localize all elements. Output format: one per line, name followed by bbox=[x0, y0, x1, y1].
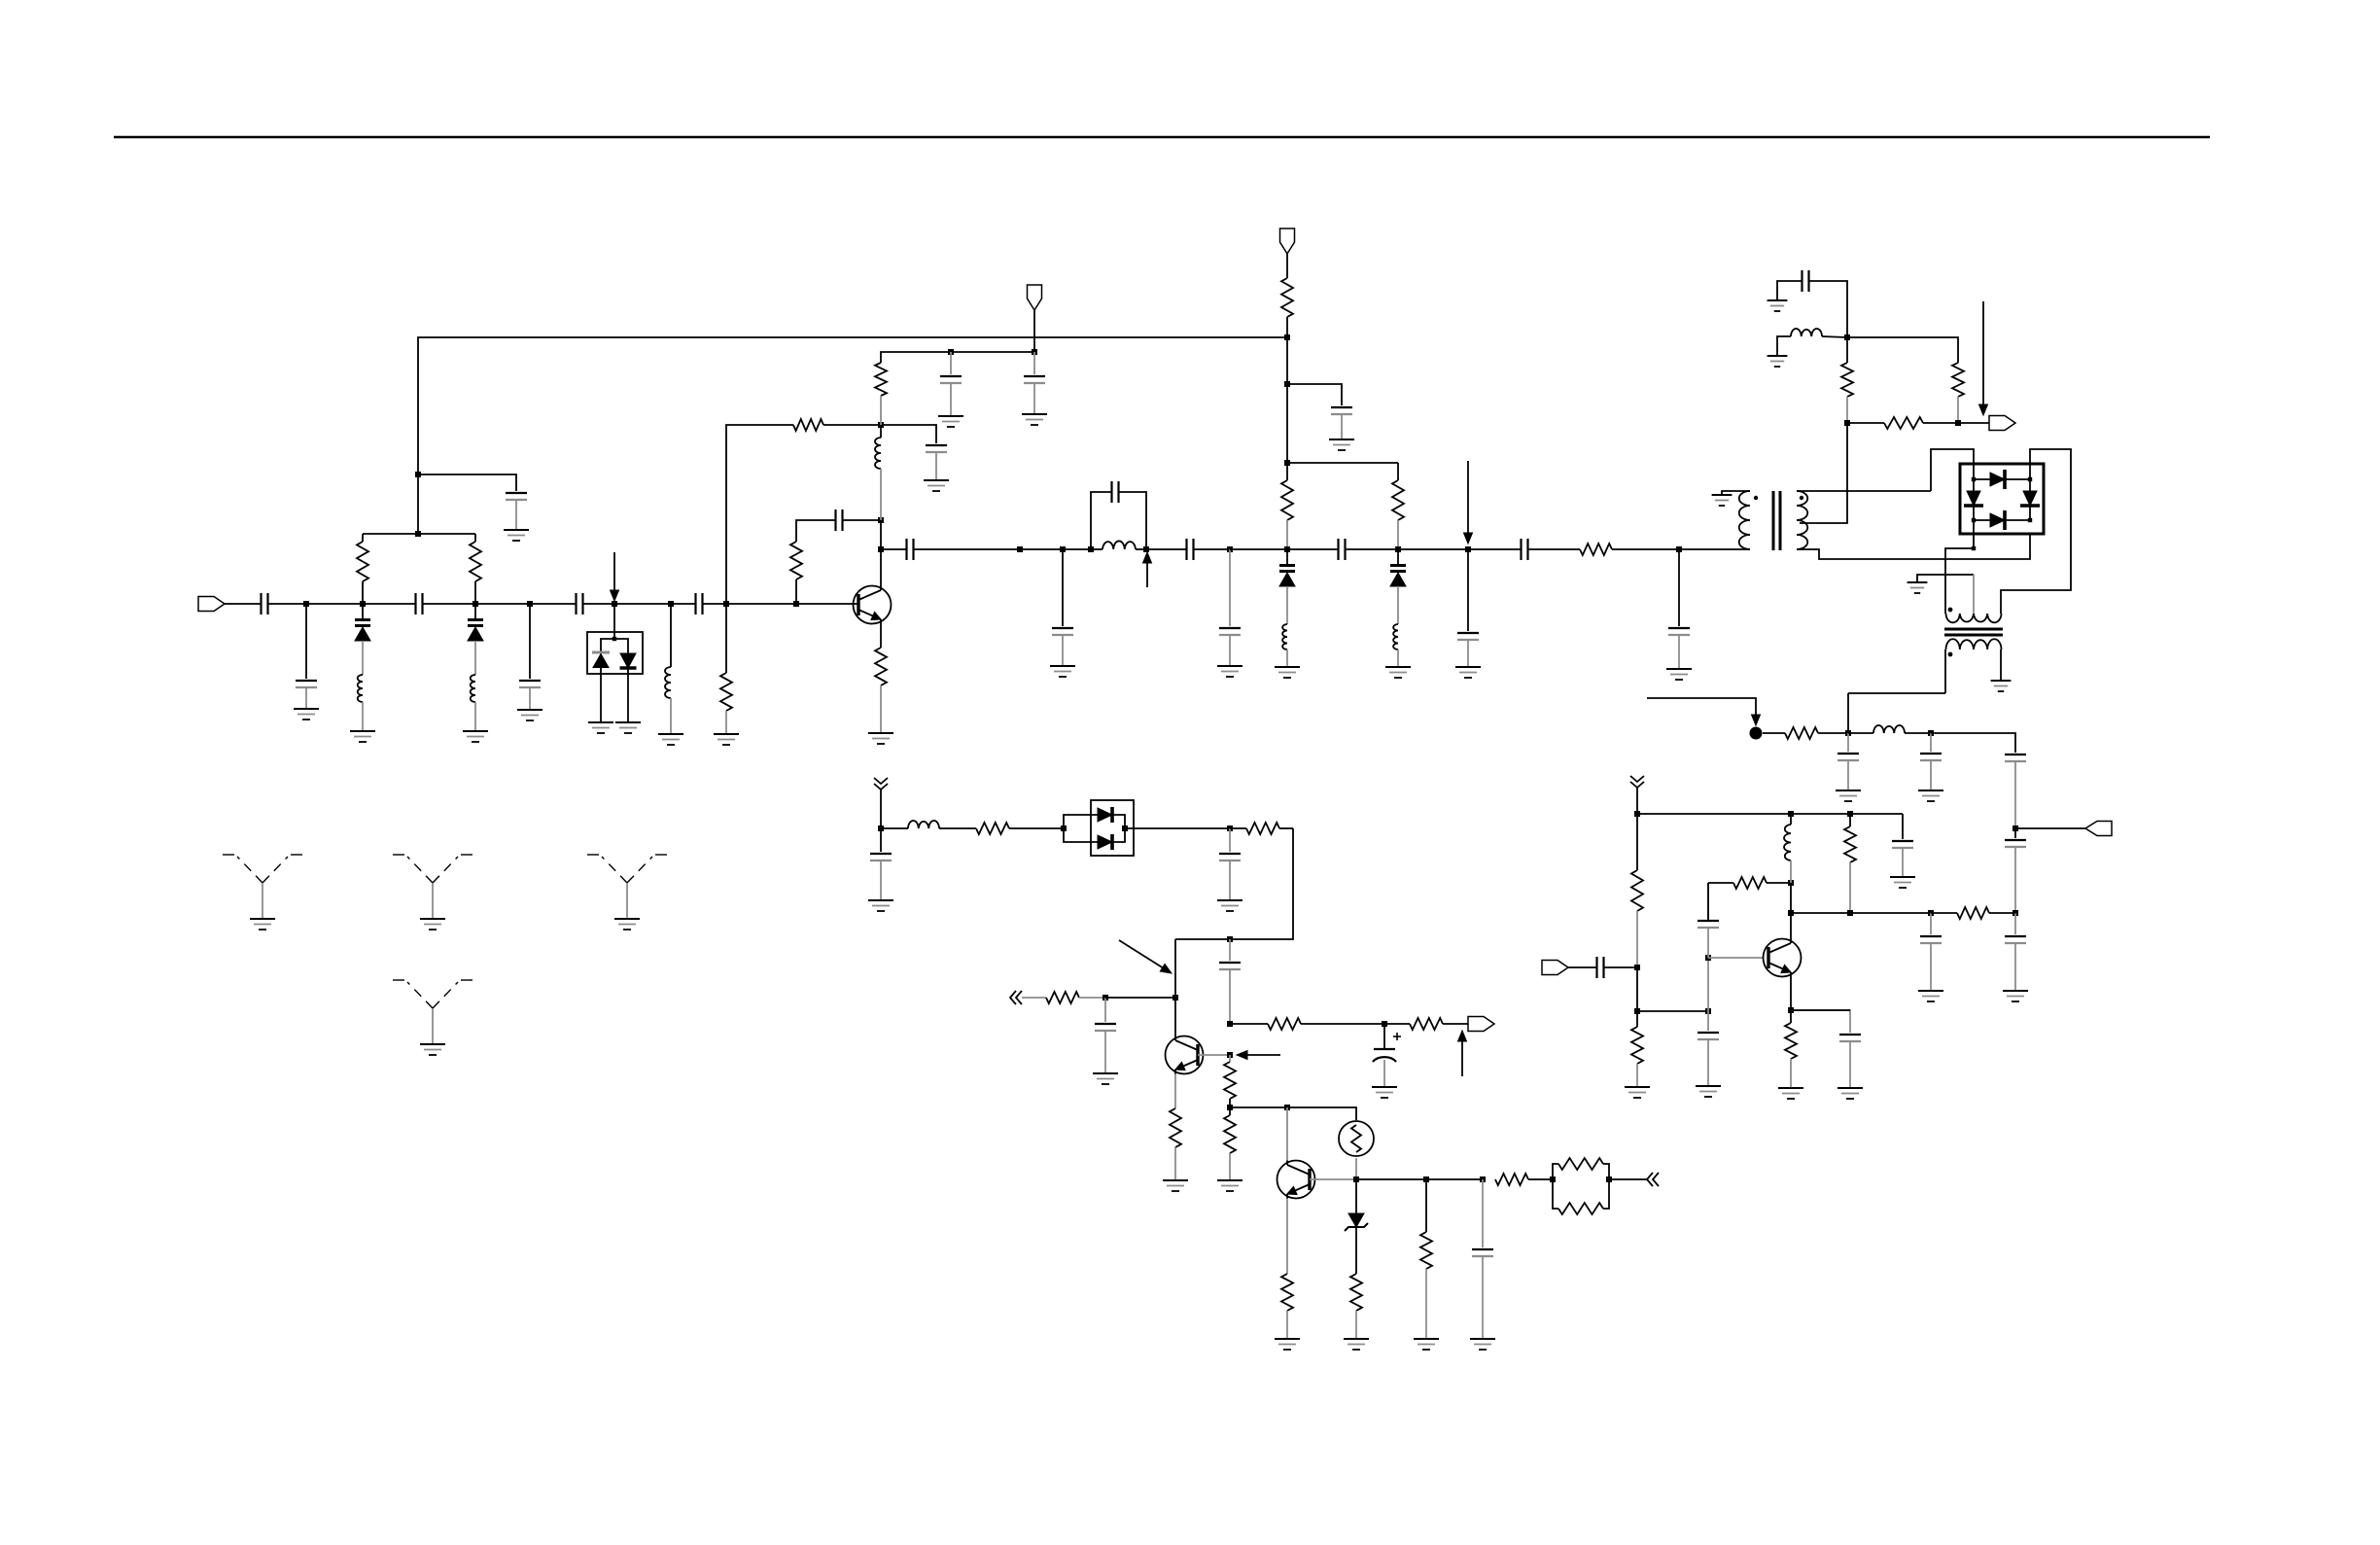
wire R7 to bus bbox=[1286, 317, 1288, 337]
core T2 bbox=[1944, 628, 2003, 631]
resistor R10 bbox=[1580, 544, 1612, 555]
wire C29 to col1 bbox=[1604, 966, 1637, 968]
wire VA shunt bbox=[880, 828, 882, 852]
wire QE to cap bbox=[1791, 1010, 1850, 1033]
resistor R2 bbox=[470, 542, 481, 581]
wire R29 lead bbox=[1286, 1311, 1288, 1339]
wire L3 lead bbox=[670, 698, 672, 734]
inductor L11 bbox=[908, 821, 939, 828]
wire C12 lead bbox=[1341, 414, 1343, 439]
wire Q2 collector bbox=[1174, 998, 1176, 1036]
ground C36 bbox=[1217, 899, 1242, 901]
diode CR2c bbox=[1967, 491, 1980, 506]
node VI bbox=[1227, 1105, 1233, 1110]
transformer T2 bottom winding bbox=[1946, 639, 2002, 650]
wire node A shunt lead bbox=[305, 604, 307, 679]
wire T2 bot leads bbox=[1944, 650, 1946, 693]
wire therm bottom bbox=[1355, 1158, 1357, 1179]
wire E into diode box bbox=[613, 604, 615, 639]
inductor L10 bbox=[1784, 825, 1791, 860]
wire CR1 left branch bbox=[601, 639, 614, 652]
wire R30 lead bbox=[1355, 1311, 1357, 1339]
connector RX pentagon bbox=[1542, 961, 1568, 975]
resistor R5 base bias bbox=[790, 542, 802, 579]
arrow to PWR OUT bbox=[1982, 301, 1984, 404]
capacitor C31 bbox=[1697, 1032, 1719, 1034]
wire R23 to VF bbox=[1079, 997, 1105, 999]
connector VCC pentagon bbox=[1028, 285, 1042, 310]
capacitor C25 bbox=[2005, 754, 2026, 755]
ground C27 bbox=[2003, 990, 2028, 992]
arrow anno down bbox=[1467, 461, 1469, 533]
capacitor C5 bbox=[519, 680, 541, 682]
ground C1 bbox=[504, 529, 529, 531]
capacitor C22 series bbox=[1801, 270, 1802, 292]
capacitor C7 series bbox=[694, 593, 696, 614]
wire C3 lead bbox=[305, 687, 307, 709]
capacitor C13 series bbox=[905, 539, 907, 560]
resistor R19 bbox=[1957, 907, 1989, 919]
wire JI shunt bbox=[1930, 913, 1932, 934]
wire QC down bbox=[1790, 883, 1792, 913]
wire L9 leads bbox=[1848, 732, 1873, 734]
resistor R14 bbox=[1785, 727, 1818, 739]
resistor R24 bbox=[1170, 1108, 1181, 1147]
wire T1 sec top bbox=[1797, 490, 1931, 492]
wire J8 to out bbox=[1958, 422, 1989, 424]
capacitor C27 bbox=[2005, 935, 2026, 937]
arrow anno left bbox=[1245, 1054, 1280, 1056]
ground R4 bbox=[868, 732, 893, 734]
wire L10 leads bbox=[1790, 814, 1792, 825]
wire Q3 collector bbox=[1790, 913, 1792, 939]
wire T1 sec bottom bbox=[1797, 534, 2030, 559]
node QM bbox=[1606, 1176, 1612, 1182]
wire J3 down bbox=[1286, 337, 1288, 384]
ground L2 bbox=[463, 730, 488, 732]
wire C26 lead bbox=[2014, 847, 2016, 913]
wire QM to stub bbox=[1609, 1178, 1647, 1180]
ground R20 bbox=[1778, 1087, 1803, 1089]
wire K to C13 bbox=[881, 548, 906, 550]
wire R31 lead bbox=[1425, 1269, 1427, 1339]
wire C14 lead bbox=[1062, 635, 1064, 666]
wire P2 to LC bbox=[1063, 548, 1091, 550]
wire C24 lead bbox=[1930, 760, 1932, 790]
ground C40 bbox=[1470, 1338, 1495, 1340]
resistor R12 bbox=[1841, 363, 1853, 397]
wire C38 lead bbox=[1104, 1031, 1106, 1073]
ground C23 bbox=[1836, 790, 1861, 791]
node B bbox=[360, 601, 366, 607]
wire R10 to P7 bbox=[1612, 548, 1679, 550]
ground C34 bbox=[1837, 1087, 1863, 1089]
wire R11 lead bbox=[1957, 397, 1959, 423]
wire C13 to P1 bbox=[914, 548, 1020, 550]
wire C33 lead bbox=[1930, 943, 1932, 991]
wire A to B bbox=[306, 603, 363, 605]
transformer T1 secondary bbox=[1797, 491, 1807, 549]
wire R12 leads bbox=[1846, 337, 1848, 363]
wire C22 right bbox=[1809, 281, 1847, 337]
ground L3 bbox=[658, 733, 683, 735]
node JH bbox=[1847, 910, 1853, 916]
node T2 top dot bbox=[1948, 608, 1953, 613]
node JE bbox=[1634, 1008, 1640, 1014]
node A bbox=[303, 601, 309, 607]
resistor R4 emitter bbox=[875, 648, 887, 685]
node QL bbox=[1550, 1176, 1556, 1182]
wire CR1a lead bbox=[600, 668, 602, 722]
capacitor C37 bbox=[1219, 962, 1241, 964]
wire VCC bus corner to junction bbox=[418, 337, 1287, 474]
wire Q4 collector bbox=[1286, 1107, 1288, 1161]
resistor R29 bbox=[1281, 1274, 1293, 1311]
ground C12 bbox=[1329, 439, 1354, 440]
node bus J3 bbox=[1284, 334, 1290, 340]
arrow anno diag bbox=[1119, 940, 1164, 968]
wire G shunt lead bbox=[725, 604, 727, 673]
wire feedback R6 run bbox=[823, 424, 881, 426]
inductor L5 bbox=[1102, 541, 1136, 549]
wire C31 lead bbox=[1707, 1039, 1709, 1086]
capacitor C39 electrolytic bbox=[1374, 1048, 1395, 1050]
wire QE corner bk bbox=[1791, 1009, 1850, 1011]
node J4 bbox=[1284, 381, 1290, 387]
capacitor C23 bbox=[1837, 753, 1859, 755]
wire bridge left rail bbox=[1973, 479, 1975, 520]
node QG bbox=[1227, 1052, 1233, 1058]
node J8 bbox=[1955, 420, 1961, 426]
wire 9V lead bbox=[1286, 254, 1288, 278]
wire R2 bottom lead bbox=[474, 581, 476, 603]
wire JF shunt bbox=[1707, 1011, 1709, 1031]
node VH bbox=[1382, 1021, 1387, 1027]
ground C10 bbox=[938, 415, 963, 417]
wire L2 lead bbox=[474, 702, 476, 731]
capacitor C8 series bbox=[834, 509, 836, 531]
wire J1 down to J2 bbox=[417, 474, 419, 534]
connector ANT bbox=[2085, 822, 2112, 836]
node BL corner bbox=[1972, 546, 1976, 550]
wire QJ to QK bbox=[1426, 1178, 1483, 1180]
inductor L6 bbox=[1282, 624, 1287, 650]
ground T2 bbox=[1991, 680, 2012, 682]
transistor Q1 bbox=[854, 586, 892, 624]
node H base of Q1 bbox=[793, 601, 799, 607]
resistor R28 bbox=[1224, 1115, 1236, 1153]
resistor R8 bbox=[1281, 480, 1293, 520]
node QC bbox=[1788, 880, 1794, 886]
wire D to C6 bbox=[530, 603, 576, 605]
wire JH to JI bbox=[1850, 912, 1931, 914]
wire C18 to P5 bbox=[1346, 548, 1398, 550]
capacitor C35 bbox=[870, 853, 892, 855]
resistor R6 bbox=[793, 419, 823, 431]
wire C35 lead bbox=[880, 860, 882, 900]
ground C21 bbox=[1666, 668, 1692, 670]
wire VD corner down bbox=[1175, 828, 1293, 939]
wire QD to JH bbox=[1791, 912, 1850, 914]
wire C5 lead bbox=[529, 687, 531, 710]
wire L11 leads bbox=[881, 827, 908, 829]
transformer T1 primary bbox=[1739, 491, 1750, 549]
wire LC cap loop bbox=[1091, 492, 1112, 549]
wire P3 to P4 bbox=[1230, 548, 1287, 550]
shield stub 4 bbox=[393, 980, 472, 1008]
wire R20 top lead bbox=[1790, 1010, 1792, 1023]
wire R20 lead bbox=[1790, 1059, 1792, 1088]
node JC bbox=[2012, 825, 2018, 831]
wire Q4 emitter bbox=[1286, 1199, 1288, 1275]
wire Q1 emitter lead bbox=[880, 624, 882, 649]
ground L1 bbox=[350, 730, 375, 732]
node G bbox=[723, 601, 729, 607]
capacitor C26 bbox=[2005, 839, 2026, 841]
wire JC to ANT bbox=[2015, 827, 2085, 829]
node JB bbox=[1928, 730, 1934, 736]
resistor R7 bbox=[1281, 278, 1293, 317]
node K2 bbox=[878, 517, 884, 523]
node VF bbox=[1102, 995, 1108, 1001]
wire R1 bottom lead bbox=[362, 581, 364, 603]
wire L6 lead bbox=[1286, 650, 1288, 667]
wire L4 leads bbox=[880, 469, 882, 520]
ground C11 bbox=[1022, 413, 1047, 415]
wire JE to JF bbox=[1637, 1010, 1708, 1012]
wire C20 to R10 bbox=[1528, 548, 1580, 550]
wire C23 lead bbox=[1847, 760, 1849, 790]
wire R25 leads bbox=[1230, 1023, 1268, 1025]
wire C2 to node A bbox=[268, 603, 306, 605]
wire VI to Q4 col bbox=[1230, 1106, 1287, 1108]
wire R32 to box bbox=[1528, 1178, 1553, 1180]
varactor D3 bbox=[1286, 549, 1288, 564]
wire R14 to JA bbox=[1818, 732, 1848, 734]
wire VR1 to R30 bbox=[1355, 1227, 1357, 1274]
wire R27 lead bbox=[1229, 1099, 1231, 1107]
capacitor C29 series bbox=[1595, 957, 1597, 978]
wire C19 lead bbox=[1467, 640, 1469, 667]
capacitor C19 bbox=[1457, 632, 1479, 634]
wire C34 lead bbox=[1849, 1041, 1851, 1088]
shield stub 1 bbox=[223, 855, 302, 883]
capacitor C15 series bbox=[1110, 481, 1112, 503]
wire P7 to T1 bbox=[1679, 548, 1750, 550]
resistor R33 bbox=[1558, 1158, 1603, 1170]
transistor Q4 bbox=[1277, 1161, 1315, 1199]
wire E to F bbox=[614, 603, 671, 605]
wire N1 lead bbox=[950, 352, 952, 374]
wire CR1 right branch bbox=[614, 639, 628, 653]
wire stub to bus bbox=[1636, 788, 1638, 814]
wire C1 lead bbox=[515, 500, 517, 530]
wire T2 to JA bbox=[1847, 693, 1849, 733]
wire TL feed bbox=[1931, 449, 1974, 491]
wire bus col4 corner bbox=[1902, 814, 1904, 839]
node QF bbox=[1172, 995, 1178, 1001]
ground R28 bbox=[1217, 1179, 1242, 1181]
capacitor C6 series bbox=[575, 593, 577, 614]
wire input to C2 bbox=[225, 603, 261, 605]
wire C25 lead bbox=[2014, 761, 2016, 828]
wire K up to K2 bbox=[880, 520, 882, 549]
node JF bbox=[1705, 1008, 1711, 1014]
wire L8 right bbox=[1822, 336, 1847, 337]
arrow anno up bbox=[1461, 1040, 1463, 1076]
diode VR1 zener bbox=[1348, 1213, 1364, 1227]
inductor L9 bbox=[1873, 725, 1905, 733]
ground C31 bbox=[1696, 1085, 1721, 1087]
node collector K bbox=[878, 546, 884, 552]
wire TR to T2 bbox=[2001, 449, 2071, 614]
chevron stub PC out bbox=[1647, 1173, 1653, 1186]
node P4 bbox=[1284, 546, 1290, 552]
ground CR1a bbox=[588, 721, 613, 723]
wire C16 to P3 bbox=[1194, 548, 1230, 550]
resistor R21 bbox=[976, 823, 1009, 834]
node B+ big dot bbox=[1750, 727, 1763, 740]
diode CR2d bbox=[2023, 491, 2037, 506]
wire P7 shunt bbox=[1678, 549, 1680, 626]
wire P6 to C20 bbox=[1468, 548, 1521, 550]
ground C38 bbox=[1093, 1072, 1118, 1074]
wire P3 shunt bbox=[1229, 549, 1231, 626]
arrow tune1 bbox=[613, 552, 615, 590]
capacitor C20 series bbox=[1520, 539, 1522, 560]
node C bbox=[472, 601, 478, 607]
wire T1 pri top lead bbox=[1722, 491, 1750, 495]
wire VF shunt bbox=[1104, 998, 1106, 1022]
ground R31 bbox=[1414, 1338, 1439, 1340]
capacitor C18 series bbox=[1337, 539, 1339, 560]
wire VCC feed bbox=[1033, 310, 1035, 352]
wire JB shunt bbox=[1930, 733, 1932, 752]
wire R2 top lead bbox=[474, 534, 476, 542]
node QE bbox=[1788, 1007, 1794, 1013]
node P1 bbox=[1017, 546, 1023, 552]
wire QK down bbox=[1482, 1179, 1484, 1247]
wire J4 down to J5 bbox=[1286, 384, 1288, 463]
wire zener lead bbox=[1355, 1179, 1357, 1213]
box bridge rectifier CR2 bbox=[1960, 464, 2044, 534]
wire C36 lead bbox=[1229, 860, 1231, 900]
wire JC down bbox=[2014, 828, 2016, 838]
node T1 feed J6 bbox=[1844, 334, 1850, 340]
connector RF input J_IN bbox=[198, 597, 225, 612]
node QH bbox=[1284, 1105, 1290, 1110]
capacitor C21 bbox=[1668, 627, 1690, 629]
wire F to C7 bbox=[671, 603, 695, 605]
wire Q3 base bbox=[1708, 957, 1763, 959]
wire fb corner bbox=[1707, 883, 1709, 921]
ground L7 bbox=[1385, 666, 1411, 668]
wire J5 crossbar bbox=[1287, 462, 1398, 464]
chevron stub VCO bbox=[874, 778, 888, 784]
arrow B+ down bbox=[1752, 715, 1761, 725]
connector power detect out bbox=[1989, 416, 2015, 431]
wire Q1 collector lead bbox=[880, 549, 882, 586]
capacitor C4 series bbox=[414, 593, 416, 614]
node QK bbox=[1480, 1176, 1486, 1182]
node RX in bbox=[1634, 965, 1640, 970]
wire CR3a out bbox=[1111, 815, 1125, 828]
wire bridge right rail bbox=[2029, 479, 2031, 520]
ground C14 bbox=[1050, 665, 1075, 667]
diode CR1a up bbox=[592, 651, 610, 654]
capacitor C3 bbox=[296, 680, 317, 682]
node QD bbox=[1788, 910, 1794, 916]
varactor D4 bbox=[1397, 549, 1399, 564]
node P3 bbox=[1227, 546, 1233, 552]
shield stub 3 bbox=[587, 855, 667, 883]
wire P5 to P6 bbox=[1398, 548, 1468, 550]
wire R16 leads bbox=[1636, 1011, 1638, 1027]
wire page top rule bbox=[114, 136, 2210, 139]
node N2 bbox=[1032, 349, 1037, 355]
inductor L2 bbox=[471, 675, 475, 702]
capacitor C16 series bbox=[1185, 539, 1187, 560]
node T2 bot dot bbox=[1948, 652, 1953, 657]
wire R24 lead bbox=[1174, 1147, 1176, 1180]
connector 9V pentagon bbox=[1280, 228, 1295, 254]
diode CR3a bbox=[1098, 808, 1112, 822]
wire B+ entry bbox=[1647, 698, 1756, 720]
resistor R1 bbox=[357, 542, 368, 581]
capacitor C11 bbox=[1024, 375, 1045, 377]
inductor L8 bbox=[1791, 329, 1822, 336]
node VE bbox=[1227, 936, 1233, 942]
diode CR3b bbox=[1098, 835, 1112, 849]
capacitor C33 bbox=[1920, 935, 1942, 937]
wire C to D bbox=[475, 603, 530, 605]
resistor R27 bbox=[1224, 1062, 1236, 1099]
node VG bbox=[1227, 1021, 1233, 1027]
node bus junction J1 bbox=[415, 472, 421, 477]
node bridge TR bbox=[2028, 477, 2032, 481]
wire C9 lead bbox=[935, 452, 937, 480]
wire C6 to node E bbox=[583, 603, 614, 605]
capacitor C12 bbox=[1331, 406, 1352, 408]
resistor R11 bbox=[1952, 363, 1964, 397]
wire base H to Q1 bbox=[796, 603, 858, 605]
wire RX to C29 bbox=[1568, 966, 1596, 968]
wire L7 lead bbox=[1397, 650, 1399, 667]
ground C5 bbox=[517, 709, 542, 711]
wire C28 lead bbox=[1902, 848, 1904, 877]
wire sub-bus bbox=[881, 352, 1034, 363]
wire C21 lead bbox=[1678, 635, 1680, 669]
arrow test point up bbox=[1146, 562, 1148, 587]
node LC right bbox=[1143, 546, 1149, 552]
node QB1 bbox=[1634, 811, 1640, 817]
inductor L7 bbox=[1393, 624, 1398, 650]
wire par bot bbox=[1553, 1179, 1558, 1209]
wire C22 left bbox=[1777, 281, 1802, 300]
wire R3 lead bbox=[725, 711, 727, 734]
wire C17 lead bbox=[1229, 635, 1231, 666]
wire T1 sec tap bbox=[1800, 423, 1847, 523]
wire F shunt lead bbox=[670, 604, 672, 667]
inductor L1 bbox=[358, 675, 363, 702]
resistor R16 bbox=[1631, 1027, 1643, 1064]
wire J2 crossbar bbox=[363, 533, 475, 535]
shield stub 2 bbox=[393, 855, 472, 883]
capacitor C30 bbox=[1697, 920, 1719, 922]
node JI bbox=[1928, 910, 1934, 916]
wire C7 to node G bbox=[703, 603, 726, 605]
inductor L3 bbox=[665, 667, 671, 698]
